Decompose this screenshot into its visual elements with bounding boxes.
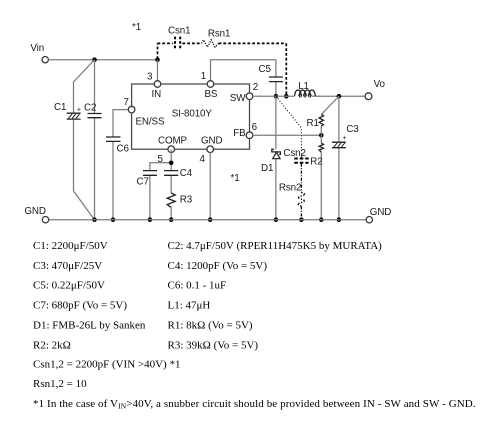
svg-text:L1: L1	[298, 81, 309, 92]
pin 2 SW	[230, 82, 258, 104]
svg-text:C2: 4.7μF/50V (RPER11H475K5 by: C2: 4.7μF/50V (RPER11H475K5 by MURATA)	[168, 240, 383, 252]
wire C2 branch	[94, 60, 96, 220]
svg-text:D1: FMB-26L by Sanken: D1: FMB-26L by Sanken	[33, 320, 146, 332]
capacitor C2	[84, 103, 102, 118]
svg-text:D1: D1	[261, 163, 273, 174]
svg-text:C3: 470μF/25V: C3: 470μF/25V	[33, 260, 102, 272]
svg-text:C5: 0.22μF/50V: C5: 0.22μF/50V	[33, 280, 105, 292]
snubber dashed wire top	[158, 43, 287, 96]
resistor Rsn1	[202, 29, 231, 48]
svg-text:C4: C4	[180, 168, 193, 179]
svg-text:Rsn2: Rsn2	[279, 183, 301, 194]
pin 6 FB	[233, 122, 257, 139]
node C6-gnd	[111, 217, 116, 222]
wire Vin rail	[49, 59, 158, 61]
wire C6 branch	[113, 110, 129, 220]
pin 3 IN	[147, 72, 161, 101]
svg-text:EN/SS: EN/SS	[136, 117, 165, 128]
svg-text:BS: BS	[205, 89, 218, 100]
terminal GND left	[24, 206, 48, 223]
svg-text:*1 In the case of VIN>40V, a s: *1 In the case of VIN>40V, a snubber cir…	[33, 398, 476, 411]
svg-text:C5: C5	[259, 64, 272, 75]
parts list text	[33, 240, 476, 411]
node Vin-C1C2	[92, 57, 97, 62]
svg-text:FB: FB	[233, 128, 246, 139]
node R3-gnd	[169, 217, 174, 222]
svg-text:SI-8010Y: SI-8010Y	[172, 109, 213, 120]
wire dashed snubber2 mid	[300, 164, 302, 193]
node COMP-C7-C4	[169, 161, 174, 166]
capacitor C6	[106, 137, 129, 155]
svg-text:2: 2	[253, 82, 258, 93]
svg-text:Csn2: Csn2	[283, 148, 305, 159]
node Vo-R1-C3	[337, 94, 342, 99]
svg-text:Csn1: Csn1	[168, 26, 190, 37]
wire IN pin drop	[157, 60, 159, 84]
wire R2 branch	[320, 135, 322, 220]
wire GND rail	[49, 219, 366, 221]
node ICGND-gnd	[208, 217, 213, 222]
svg-text:GND: GND	[201, 136, 222, 147]
node C3-gnd	[337, 217, 342, 222]
diode D1	[261, 149, 280, 174]
svg-text:C3: C3	[346, 124, 359, 135]
svg-text:C7: 680pF (Vo = 5V): C7: 680pF (Vo = 5V)	[33, 300, 127, 312]
wire C1 branch	[74, 60, 95, 220]
pin 7 EN/SS	[124, 97, 165, 128]
svg-text:R3: 39kΩ (Vo = 5V): R3: 39kΩ (Vo = 5V)	[168, 339, 259, 351]
svg-text:Vo: Vo	[374, 79, 386, 90]
svg-text:4: 4	[200, 154, 206, 165]
capacitor C1	[54, 102, 81, 119]
svg-text:GND: GND	[24, 206, 45, 217]
wire BS to C5	[211, 60, 276, 96]
terminal Vin	[30, 43, 48, 63]
IC U1 SI-8010Y body	[132, 84, 250, 149]
svg-text:C4: 1200pF (Vo = 5V): C4: 1200pF (Vo = 5V)	[168, 260, 268, 272]
svg-text:+: +	[342, 135, 346, 142]
capacitor C7	[137, 171, 158, 188]
wire GND pin drop	[209, 152, 211, 219]
svg-text:GND: GND	[370, 207, 391, 218]
svg-text:*1: *1	[231, 173, 240, 184]
svg-text:C2: C2	[84, 103, 96, 114]
pin 4 GND	[200, 136, 223, 166]
svg-text:*1: *1	[132, 22, 141, 33]
capacitor C5	[259, 64, 283, 82]
node R2-gnd	[319, 217, 324, 222]
wire C3 branch	[338, 96, 340, 220]
node SW-snubber	[284, 94, 289, 99]
wire SW rail	[253, 95, 366, 97]
wire COMP junction	[150, 149, 171, 220]
resistor R3	[167, 193, 193, 207]
svg-text:C1: C1	[54, 102, 66, 113]
svg-text:R3: R3	[180, 195, 193, 206]
svg-text:R1: R1	[307, 118, 319, 129]
capacitor Csn1	[168, 26, 190, 50]
svg-text:3: 3	[147, 72, 153, 83]
pin 1 BS	[201, 71, 218, 100]
svg-text:+: +	[77, 107, 81, 114]
wire dashed snubber2 lower	[300, 206, 302, 219]
svg-text:L1: 47μH: L1: 47μH	[168, 300, 211, 312]
svg-text:6: 6	[252, 122, 258, 133]
terminal GND right	[366, 207, 391, 223]
svg-text:Rsn1: Rsn1	[208, 29, 230, 40]
svg-text:1: 1	[201, 71, 206, 82]
wire R1 diagonal	[321, 96, 339, 135]
wire FB rail	[253, 134, 322, 136]
pin 5 COMP	[158, 136, 188, 166]
svg-text:R2: 2kΩ: R2: 2kΩ	[33, 339, 71, 351]
node Vin-snubber-IN	[155, 57, 160, 62]
svg-text:7: 7	[124, 97, 129, 108]
capacitor C4	[164, 168, 193, 179]
svg-text:C7: C7	[137, 177, 149, 188]
resistor R2	[310, 143, 323, 167]
wire dotted snubber2 upper	[276, 96, 302, 158]
capacitor C3	[332, 124, 359, 148]
node C7-gnd	[148, 217, 153, 222]
svg-text:C6: C6	[117, 144, 130, 155]
svg-text:Rsn1,2 = 10: Rsn1,2 = 10	[33, 378, 87, 390]
node SW-C5-D1	[274, 94, 279, 99]
capacitor Csn2	[283, 148, 308, 163]
node FB-R1-R2	[319, 133, 324, 138]
svg-text:SW: SW	[230, 93, 246, 104]
svg-text:C1: 2200μF/50V: C1: 2200μF/50V	[33, 240, 108, 252]
svg-text:IN: IN	[152, 89, 162, 100]
svg-text:R2: R2	[310, 157, 322, 168]
resistor R1	[307, 114, 324, 129]
node D1-gnd	[274, 217, 279, 222]
svg-text:C6: 0.1 - 1uF: C6: 0.1 - 1uF	[168, 280, 227, 292]
svg-text:COMP: COMP	[158, 136, 188, 147]
svg-text:Csn1,2 = 2200pF (VIN >40V) *1: Csn1,2 = 2200pF (VIN >40V) *1	[33, 359, 180, 371]
resistor Rsn2	[279, 183, 306, 207]
wire D1 branch	[275, 96, 277, 220]
node C1C2-gnd	[92, 217, 97, 222]
svg-text:R1: 8kΩ (Vo = 5V): R1: 8kΩ (Vo = 5V)	[168, 320, 253, 332]
node snubber2-gnd	[299, 217, 304, 222]
terminal Vo	[365, 79, 385, 100]
svg-text:Vin: Vin	[30, 43, 44, 54]
inductor L1	[286, 81, 320, 96]
